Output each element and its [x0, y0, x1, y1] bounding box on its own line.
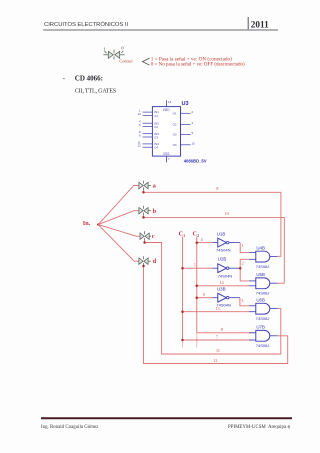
junction dot C1/line13 — [181, 310, 184, 313]
wire switch b control to U5B output — [144, 215, 285, 284]
U6B part 74S08J — [256, 316, 270, 321]
svg-text:3: 3 — [192, 121, 194, 125]
header title — [44, 21, 128, 28]
U3 left pins group1 — [143, 112, 153, 147]
wire switch d control to U7B output (line 12) — [144, 265, 288, 363]
svg-text:U7B: U7B — [256, 324, 265, 329]
U3B input stub — [213, 297, 219, 299]
junction dot c control — [143, 241, 146, 244]
U7B label — [256, 324, 265, 329]
AND gate U5B — [256, 278, 277, 289]
legend label 0 — [121, 46, 124, 51]
switch b — [139, 206, 151, 216]
wire C1 to U2B input — [183, 267, 213, 269]
header divider vertical — [247, 17, 249, 29]
AND gate U4B — [256, 251, 277, 262]
svg-text:Control: Control — [119, 59, 133, 64]
svg-text:U1B: U1B — [217, 231, 226, 236]
net number 12 — [213, 358, 217, 363]
node C1 label — [179, 230, 186, 238]
junction dot C1/line7 — [181, 339, 184, 342]
wire U3B out to U6B in1 — [240, 298, 249, 306]
U3 label — [182, 101, 189, 107]
wire C2 to U1B input — [197, 242, 213, 244]
svg-text:c: c — [152, 233, 155, 240]
svg-text:PPIMEYM-UCSM Arequipa: PPIMEYM-UCSM Arequipa — [228, 425, 287, 430]
inverter U3B — [218, 293, 240, 302]
svg-text:9: 9 — [203, 292, 205, 297]
legend label Control — [119, 59, 133, 64]
svg-text:13: 13 — [138, 112, 142, 116]
svg-text:14: 14 — [168, 100, 172, 104]
legend red text line 2 — [151, 62, 245, 67]
svg-text:6: 6 — [139, 134, 141, 138]
header year 2011 — [251, 19, 269, 29]
svg-text:O3: O3 — [173, 133, 177, 137]
U3 left pin labels — [154, 110, 159, 149]
U3 right pin numbers — [192, 110, 196, 146]
svg-text:U3B: U3B — [217, 286, 226, 291]
U1B part 74S04N — [216, 248, 231, 253]
svg-text:CD 4066:: CD 4066: — [75, 75, 103, 83]
U6B input stubs — [249, 306, 256, 312]
svg-text:11: 11 — [216, 348, 220, 353]
svg-text:C3: C3 — [154, 135, 158, 139]
wire fan to switch d — [98, 225, 139, 262]
inverter U1B — [218, 238, 240, 247]
svg-text:C2: C2 — [154, 125, 158, 129]
svg-text:O1: O1 — [173, 111, 177, 115]
U4B input stubs — [249, 253, 256, 260]
svg-text:5: 5 — [139, 123, 141, 127]
svg-text:-: - — [63, 74, 66, 82]
svg-text:4066BD_5V: 4066BD_5V — [184, 158, 207, 163]
svg-text:8: 8 — [221, 327, 223, 332]
svg-text:2011: 2011 — [251, 19, 269, 29]
U5B input stubs — [249, 281, 256, 286]
junction dot C2/line14 — [196, 285, 199, 288]
svg-text:U4B: U4B — [256, 246, 265, 251]
svg-text:a: a — [153, 182, 157, 189]
footer author — [41, 425, 99, 430]
AND gate U7B — [256, 330, 277, 341]
footer right text — [228, 425, 287, 430]
switch c — [140, 231, 151, 241]
svg-text:1: 1 — [183, 234, 185, 238]
U7B input stubs — [249, 333, 256, 340]
svg-text:U2B: U2B — [218, 256, 227, 261]
svg-text:4: 4 — [201, 237, 203, 242]
U3B part 74S04N — [216, 303, 231, 308]
svg-text:U5B: U5B — [256, 272, 265, 277]
svg-text:O2: O2 — [173, 123, 177, 127]
svg-text:5: 5 — [194, 262, 196, 267]
U5B label — [256, 272, 265, 277]
U4B part 74S08J — [256, 264, 270, 269]
wire fan to switch c — [98, 225, 140, 237]
switch d label — [153, 258, 157, 265]
wire C1 vertical and line 7 — [183, 237, 254, 340]
wire switch c control to U6B output (line 11) — [145, 240, 281, 354]
net number 9 — [203, 292, 205, 297]
svg-text:74S08J: 74S08J — [256, 316, 270, 321]
svg-text:3: 3 — [241, 298, 243, 303]
net number 4 — [201, 237, 203, 242]
net number 8 (U7B input) — [221, 327, 223, 332]
wire switch a control to U4B output — [144, 190, 281, 257]
legend red text line 1 — [151, 55, 232, 62]
wire fan to switch a — [98, 186, 139, 225]
C1 tail — [182, 340, 184, 348]
switch c label — [152, 233, 155, 240]
net number 7 — [216, 334, 218, 339]
wire U1B out to U4B in1 — [240, 243, 249, 253]
net number 2 — [242, 260, 244, 265]
U2B label — [218, 256, 227, 261]
U3 right pins — [181, 113, 191, 145]
header rule — [43, 29, 278, 31]
wire C1 to U6B in2 (line 13) — [183, 311, 250, 313]
junction dot C2/U1B — [196, 241, 199, 244]
legend label 1 — [103, 46, 106, 51]
svg-text:74S04N: 74S04N — [218, 274, 233, 279]
junction dot C1/U2B — [181, 267, 184, 270]
svg-text:2: 2 — [242, 260, 244, 265]
AND gate U6B — [256, 303, 277, 314]
switch a label — [153, 182, 157, 189]
svg-text:VSS: VSS — [163, 152, 169, 156]
net number 13 — [216, 306, 220, 311]
U6B label — [256, 297, 265, 302]
wire C2 to U3B input — [197, 297, 213, 299]
svg-text:U3: U3 — [182, 101, 189, 107]
net number 8 (a line) — [216, 186, 218, 191]
footer page number — [288, 424, 291, 430]
wire fan to switch b — [98, 211, 139, 225]
section subtitle — [75, 88, 116, 94]
section bullet dash — [63, 74, 66, 82]
net number 10 (b line) — [225, 211, 229, 216]
svg-text:In.: In. — [83, 220, 91, 227]
net number 5 — [194, 262, 196, 267]
junction dot a control — [142, 191, 145, 194]
svg-text:6: 6 — [288, 424, 291, 430]
U3 body — [152, 107, 180, 157]
wire C2 vertical and line 8 — [197, 237, 254, 333]
svg-text:13: 13 — [216, 306, 220, 311]
C2 tail — [196, 333, 198, 348]
net number 11 — [216, 348, 220, 353]
svg-text:2: 2 — [192, 110, 194, 114]
svg-text:0 = No pasa la señal + ve: OFF: 0 = No pasa la señal + ve: OFF (desconec… — [151, 62, 245, 67]
svg-text:12: 12 — [138, 144, 142, 148]
switch SW legend symbol — [103, 50, 124, 60]
svg-text:Ing. Ronald Coaguila Gómez: Ing. Ronald Coaguila Gómez — [41, 425, 99, 430]
svg-text:74S04N: 74S04N — [216, 248, 231, 253]
net number 14 — [220, 280, 224, 285]
node C2 label — [193, 230, 200, 238]
U2B input stub — [213, 267, 219, 269]
svg-text:b: b — [153, 208, 157, 215]
svg-text:2: 2 — [197, 234, 199, 238]
junction dot d control — [142, 265, 145, 268]
U3 VSS pin 7 — [163, 152, 170, 162]
svg-text:C1: C1 — [154, 114, 158, 118]
U7B part 74S08J — [256, 343, 270, 348]
junction dot C2/U3B — [196, 296, 199, 299]
U3 left pin numbers — [138, 109, 142, 148]
svg-text:8: 8 — [216, 186, 218, 191]
U3 VDD pin 14 — [163, 100, 172, 112]
switch a — [139, 181, 151, 191]
svg-text:d: d — [153, 258, 157, 265]
U3 part number 4066BD_5V — [184, 158, 207, 163]
svg-text:10: 10 — [225, 211, 229, 216]
svg-text:CII, TTL, GATES: CII, TTL, GATES — [75, 88, 116, 94]
U1B label — [217, 231, 226, 236]
svg-text:O4: O4 — [173, 143, 177, 147]
section title CD 4066 — [75, 75, 103, 83]
switch d — [139, 256, 151, 266]
node In fan junction — [97, 223, 99, 225]
svg-text:9: 9 — [192, 131, 194, 135]
U3B label — [217, 286, 226, 291]
svg-text:1 = Pasa la señal + ve: ON (co: 1 = Pasa la señal + ve: ON (conectado) — [151, 55, 232, 62]
junction dot b control — [142, 216, 145, 219]
inverter U2B — [218, 264, 240, 273]
svg-text:C4: C4 — [154, 146, 158, 150]
junction dot U2B out — [239, 267, 242, 270]
svg-text:7: 7 — [216, 334, 218, 339]
svg-text:0: 0 — [121, 46, 124, 51]
svg-text:74S08J: 74S08J — [256, 343, 270, 348]
U2B part 74S04N — [218, 274, 233, 279]
net number 1 — [242, 243, 244, 248]
wire U2B out to U4B in2 and U5B in1 — [240, 259, 249, 281]
svg-text:1: 1 — [242, 243, 244, 248]
net number 3 — [241, 298, 243, 303]
svg-text:10: 10 — [192, 141, 196, 145]
svg-text:7: 7 — [168, 157, 170, 161]
svg-text:CIRCUITOS ELECTRÓNICOS II: CIRCUITOS ELECTRÓNICOS II — [44, 21, 128, 28]
svg-text:14: 14 — [220, 280, 224, 285]
footer rule — [41, 417, 292, 419]
legend brace — [142, 58, 149, 65]
svg-text:12: 12 — [213, 358, 217, 363]
svg-text:VDD: VDD — [163, 108, 170, 112]
U4B label — [256, 246, 265, 251]
switch b label — [153, 208, 157, 215]
svg-text:74S08J: 74S08J — [256, 264, 270, 269]
U3 right pin labels — [173, 111, 177, 146]
svg-text:74S08J: 74S08J — [256, 290, 270, 295]
junction dot C2 tail/line7 crossing — [196, 339, 198, 341]
svg-text:U6B: U6B — [256, 297, 265, 302]
svg-text:1: 1 — [103, 46, 106, 51]
wire C2 to U5B in2 (line 14) — [197, 285, 249, 287]
U5B part 74S08J — [256, 290, 270, 295]
U1B input stub — [213, 242, 219, 244]
node In label — [83, 220, 91, 227]
